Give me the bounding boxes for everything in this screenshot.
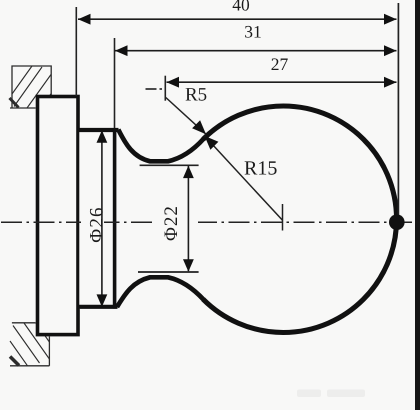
right black border strip <box>415 0 420 410</box>
svg-text:27: 27 <box>271 54 289 74</box>
dimension phi-22 vertical <box>152 166 198 272</box>
svg-text:R5: R5 <box>185 85 207 106</box>
R5 leader with arrow <box>166 85 207 135</box>
throat tangent line top <box>140 164 199 166</box>
node dot at sphere right on axis <box>389 214 405 230</box>
centerline (dash-dot axis) <box>1 221 415 223</box>
dimension 40 line with arrows <box>78 0 397 25</box>
svg-text:Φ22: Φ22 <box>161 205 182 241</box>
svg-text:Φ26: Φ26 <box>87 206 108 243</box>
faint watermark bottom right <box>297 390 365 398</box>
flange cylinder (stock in chuck) <box>38 97 79 335</box>
dimension 27 line with arrows <box>167 54 397 87</box>
extension line left of dim 40 <box>75 7 77 96</box>
R5 center mark cross <box>146 76 166 101</box>
dimension phi-26 vertical <box>81 130 108 307</box>
chuck jaw top (hatched) <box>10 66 52 108</box>
cylinder right end face <box>113 128 117 308</box>
cylinder top edge <box>78 128 119 132</box>
sphere center tick <box>282 204 284 231</box>
sphere R15 outline arc <box>203 106 396 333</box>
neck curve top <box>118 130 204 162</box>
svg-text:40: 40 <box>232 0 250 15</box>
svg-text:R15: R15 <box>244 157 277 179</box>
extension line for dim 31 <box>114 38 116 128</box>
throat tangent line bottom <box>138 271 199 273</box>
neck curve bottom <box>117 277 204 307</box>
chuck jaw bottom (hatched) <box>10 323 49 366</box>
svg-text:31: 31 <box>244 21 262 41</box>
dimension 31 line with arrows <box>115 21 397 56</box>
cylinder bottom edge <box>78 305 118 309</box>
extension line right (shared) <box>397 3 399 222</box>
cylinder body fill <box>79 128 113 309</box>
R15 leader with arrow from sphere center <box>205 136 283 220</box>
